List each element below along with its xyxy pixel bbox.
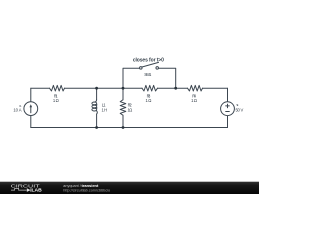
svg-text:closes for t>0: closes for t>0	[133, 58, 164, 64]
svg-text:1 H: 1 H	[102, 108, 108, 113]
svg-text:I1: I1	[19, 104, 22, 108]
svg-text:LAB: LAB	[32, 188, 42, 193]
svg-text:10 A: 10 A	[13, 108, 21, 113]
svg-text:anyquant /: anyquant /	[63, 183, 81, 188]
svg-text:1 Ω: 1 Ω	[191, 98, 197, 103]
svg-text:1 Ω: 1 Ω	[128, 108, 133, 113]
svg-text:1 Ω: 1 Ω	[53, 98, 59, 103]
svg-text:V1: V1	[236, 103, 239, 107]
svg-text:50 V: 50 V	[236, 108, 244, 113]
svg-text:1 Ω: 1 Ω	[146, 98, 152, 103]
svg-text:http://circuitlab.com/c66bcio: http://circuitlab.com/c66bcio	[63, 189, 110, 193]
svg-text:transient: transient	[82, 183, 100, 188]
svg-text:SW1: SW1	[144, 72, 152, 77]
